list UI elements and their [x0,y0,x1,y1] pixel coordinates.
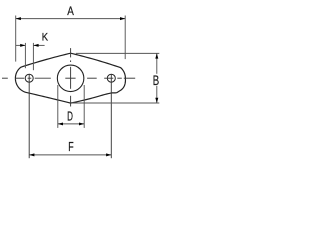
svg-text:B: B [153,72,159,88]
dimension F arrowhead right [106,153,111,156]
horizontal center line (dash-dot) [2,77,135,79]
dimension A line [16,18,126,20]
dimension K extension line right [32,43,34,70]
dimension K arrowhead left [20,44,25,47]
right hole vertical center line / F extension line [110,74,112,158]
svg-text:F: F [68,140,74,154]
svg-text:D: D [67,109,73,124]
dimension A arrowhead left [16,17,21,20]
dimension D arrowhead right [79,122,84,125]
center bore circle [57,65,84,92]
dimension A extension line left [15,16,17,62]
dimension B line lower segment [156,86,158,103]
right bolt hole [107,74,115,82]
dimension B extension line bottom [72,102,159,104]
flange outline [15,53,125,103]
dimension K tail left [16,44,26,46]
dimension B extension line top [76,52,159,54]
dimension A extension line right [124,16,126,60]
dimension F arrowhead left [29,153,34,156]
dimension K tail right [33,44,44,46]
dimension A arrowhead right [120,17,125,20]
dimension K arrowhead right [33,44,38,47]
dimension F line [29,154,111,156]
dimension B line upper segment [156,53,158,73]
vertical center line of bore (dash-dot) [70,48,72,106]
dimension D line [58,123,84,125]
dimension D extension line right [83,85,85,128]
left hole vertical center line / F extension line [28,74,30,158]
dimension K extension line left [24,43,26,68]
dimension B arrowhead top [155,53,158,58]
dimension D extension line left [57,85,59,128]
dimension B arrowhead bottom [155,98,158,103]
left bolt hole [25,74,33,82]
dimension D arrowhead left [58,122,63,125]
svg-text:K: K [42,32,49,44]
svg-text:A: A [67,4,74,18]
